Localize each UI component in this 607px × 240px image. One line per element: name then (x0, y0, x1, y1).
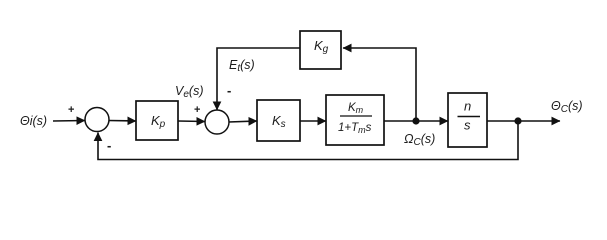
wire: input arrow into summing junction 1 (53, 120, 85, 123)
svg-text:s: s (464, 118, 471, 133)
svg-text:-: - (107, 138, 111, 153)
wire: Kg output down into summing junction 2 (217, 48, 300, 110)
block Kg (300, 31, 341, 69)
block Km over 1+Tms (326, 95, 384, 145)
wire: n/s block to output (487, 120, 560, 122)
svg-text:+: + (194, 104, 200, 116)
wire: Km block to n/s block with takeoff node (384, 120, 448, 122)
wire: summing junction 1 to Kp block (109, 120, 137, 123)
block n over s (448, 93, 487, 147)
summing junction 1 (85, 108, 109, 132)
wire: Kp to summing junction 2 (178, 120, 205, 123)
svg-text:Ve(s): Ve(s) (175, 84, 203, 100)
svg-text:1+Tms: 1+Tms (338, 122, 372, 135)
svg-text:Θi(s): Θi(s) (20, 114, 47, 128)
block Kp (136, 101, 178, 140)
node: takeoff dot Omega_C(s) (412, 117, 419, 124)
block Ks (257, 100, 300, 141)
svg-text:-: - (227, 83, 231, 98)
node: output takeoff dot (514, 117, 521, 124)
summing junction 2 (205, 110, 229, 134)
svg-text:+: + (68, 104, 74, 116)
wire: outer feedback loop to summing junction 1 (98, 121, 518, 160)
svg-text:n: n (464, 99, 471, 114)
wire: Ks to Km block (300, 120, 326, 122)
wire: takeoff node up to Kg feedback line (343, 48, 416, 121)
svg-text:Et(s): Et(s) (229, 58, 255, 74)
wire: summing junction 2 to Ks block (229, 121, 258, 122)
